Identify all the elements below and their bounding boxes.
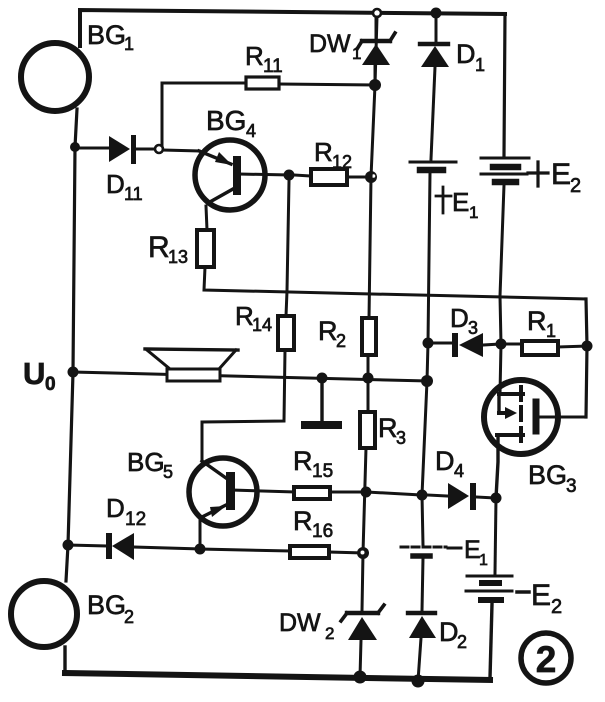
svg-text:1: 1 [352, 44, 361, 63]
label BG3 [528, 460, 577, 497]
junction R1 right [582, 341, 593, 352]
svg-text:D: D [106, 493, 125, 523]
ground [305, 378, 338, 425]
svg-text:DW: DW [279, 609, 321, 637]
diode D4 [427, 483, 496, 510]
junction ground branch [317, 373, 328, 384]
svg-text:4: 4 [246, 121, 256, 141]
svg-text:1: 1 [546, 321, 556, 341]
label D4 [435, 446, 464, 481]
label -E1 [448, 536, 488, 569]
wire R14 branch [286, 181, 289, 316]
svg-text:13: 13 [168, 247, 188, 267]
resistor R14 [278, 316, 294, 350]
svg-text:2: 2 [124, 607, 134, 627]
junction D3 / R1 / +E2 rail [496, 339, 507, 350]
wire BG3 source rail down [495, 498, 496, 573]
wire bottom rail [65, 673, 490, 680]
wire R15 to bus [330, 491, 366, 494]
wire right rail [586, 299, 587, 417]
battery -E1 [401, 547, 446, 556]
zener DW1 [357, 17, 395, 85]
svg-text:U: U [23, 356, 45, 391]
svg-text:BG: BG [127, 447, 165, 477]
svg-text:1: 1 [124, 34, 134, 54]
junction BG5 emitter / D12 / R16 [195, 544, 206, 555]
node bus top [373, 9, 381, 17]
svg-text:3: 3 [566, 476, 577, 497]
resistor R3 [360, 412, 375, 448]
svg-text:DW: DW [309, 30, 351, 58]
page marker circled 2 [521, 633, 571, 683]
svg-text:1: 1 [475, 55, 485, 75]
wire BG2 to bottom rail [63, 647, 66, 673]
diode D3 [428, 333, 501, 357]
wire R14 to BG5 top [202, 350, 285, 461]
svg-text:E: E [551, 158, 571, 191]
junction DW1 / R11 [369, 79, 381, 91]
label R12 [314, 137, 352, 172]
junction R2/R3 bus [363, 373, 374, 384]
wire U0 net [73, 372, 427, 381]
svg-text:16: 16 [312, 521, 333, 542]
label BG1 [87, 20, 134, 54]
svg-text:3: 3 [396, 428, 406, 448]
node R16 / bus [357, 547, 369, 559]
node R12 on bus [365, 171, 377, 183]
wire left rail [66, 109, 77, 581]
svg-text:R: R [378, 413, 398, 443]
junction D2 / bottom rail [412, 675, 425, 688]
label D2 [439, 617, 467, 652]
resistor R11 [246, 77, 279, 89]
zener DW2 [341, 605, 384, 677]
svg-text:2: 2 [551, 596, 562, 618]
wire +E2 rail to BG3 [500, 185, 504, 394]
svg-text:12: 12 [332, 152, 352, 172]
svg-text:D: D [435, 446, 455, 476]
label U0 [23, 356, 56, 395]
svg-text:D: D [456, 39, 476, 69]
transistor BG4 [195, 140, 289, 210]
svg-text:R: R [318, 316, 338, 346]
svg-text:2: 2 [536, 639, 557, 680]
wire R11 branch vertical [162, 83, 246, 145]
junction top rail / D1 [431, 8, 442, 19]
svg-text:5: 5 [163, 462, 173, 482]
resistor R15 [294, 487, 330, 499]
svg-text:R: R [245, 41, 264, 71]
svg-text:BG: BG [528, 460, 567, 490]
wire rail E1/D3/D4 [422, 173, 430, 545]
svg-text:4: 4 [454, 461, 464, 481]
svg-text:BG: BG [87, 20, 126, 50]
svg-text:R: R [293, 506, 313, 536]
label R2 [318, 316, 346, 351]
wire to R16 [200, 549, 290, 551]
wire bus to D4 [366, 492, 422, 495]
resistor R16 [290, 546, 329, 558]
svg-text:D: D [439, 617, 459, 647]
svg-text:14: 14 [252, 315, 272, 335]
svg-text:2: 2 [336, 331, 346, 351]
label R3 [378, 413, 406, 448]
node D11 cathode [155, 145, 163, 153]
battery +E2 [481, 158, 529, 182]
label BG5 [127, 447, 173, 482]
label D11 [106, 169, 143, 204]
label DW2 [279, 609, 334, 643]
svg-text:3: 3 [468, 318, 478, 338]
svg-text:1: 1 [469, 203, 478, 222]
wire R13 to right rail [204, 267, 586, 299]
wire top rail [80, 10, 505, 46]
diode D2 [408, 613, 436, 681]
label R16 [293, 506, 333, 542]
wire +E2 top drop [504, 14, 505, 155]
diode D1 [420, 17, 449, 159]
svg-text:11: 11 [263, 56, 283, 77]
junction BG4 base / R12 / R14 [284, 170, 295, 181]
junction R15 / bus / D4 branch [361, 487, 372, 498]
svg-text:2: 2 [570, 175, 581, 197]
label +E1 [436, 187, 478, 222]
wire -E1 to D2 [422, 558, 423, 611]
label D1 [456, 39, 485, 75]
resistor R13 [197, 230, 214, 267]
junction D4 cathode / BG3 source [491, 493, 502, 504]
resistor R2 [362, 318, 376, 355]
svg-text:BG: BG [206, 105, 246, 136]
junction D4 anode [417, 490, 428, 501]
resistor R1 [506, 341, 587, 355]
battery -E2 [466, 576, 512, 600]
junction D3 left [423, 338, 434, 349]
resistor R12 [294, 169, 366, 185]
transistor BG5 [189, 458, 294, 549]
svg-text:BG: BG [87, 590, 126, 620]
microphone BG1 [21, 43, 89, 111]
svg-text:D: D [106, 169, 125, 199]
wire -E2 to bottom rail [490, 604, 492, 678]
svg-text:R: R [293, 446, 313, 476]
label R15 [293, 446, 333, 482]
junction U0 left [68, 367, 79, 378]
svg-text:R: R [148, 231, 170, 264]
label R13 [148, 231, 188, 267]
svg-text:2: 2 [457, 632, 467, 652]
wire R11 to DW1 junction [279, 84, 375, 85]
wire R16 to bus [329, 552, 363, 553]
diode D11 [75, 135, 155, 164]
label R14 [235, 301, 272, 335]
junction U0 right rail [421, 375, 433, 387]
junction D12 left [63, 540, 74, 551]
label -E2 [517, 579, 562, 618]
junction D11 anode [70, 142, 80, 152]
label R11 [245, 41, 283, 77]
svg-text:0: 0 [45, 374, 56, 395]
svg-text:D: D [450, 303, 469, 333]
label R1 [527, 306, 556, 341]
svg-text:15: 15 [312, 461, 333, 482]
svg-text:11: 11 [124, 184, 143, 204]
svg-text:E: E [452, 187, 469, 217]
svg-text:1: 1 [479, 552, 488, 569]
junction DW2 / bottom rail [354, 671, 367, 684]
svg-text:R: R [527, 306, 547, 336]
svg-text:R: R [314, 137, 333, 167]
wire R13 horizontal run [206, 206, 207, 230]
label +E2 [528, 158, 581, 197]
wire center bus [369, 17, 377, 319]
diode D12 [68, 533, 200, 560]
battery +E1 [410, 162, 456, 170]
microphone BG2 [11, 581, 77, 647]
label BG2 [87, 590, 134, 627]
svg-text:12: 12 [125, 509, 146, 530]
mosfet BG3 [484, 380, 586, 498]
svg-text:2: 2 [325, 624, 334, 643]
wire D11 node to BG4 emitter [163, 150, 199, 151]
svg-text:E: E [531, 579, 551, 612]
label D12 [106, 493, 146, 530]
label BG4 [206, 105, 256, 141]
speaker U0 [145, 349, 238, 381]
svg-text:R: R [235, 301, 254, 331]
label D3 [450, 303, 478, 338]
label DW1 [309, 30, 361, 63]
